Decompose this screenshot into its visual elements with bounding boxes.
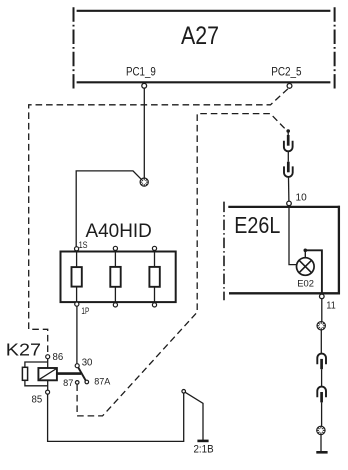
pin 11 circle <box>320 294 325 299</box>
ECU A27 box bottom edge <box>77 81 331 83</box>
svg-text:E02: E02 <box>297 279 314 289</box>
eyelet circle <box>182 390 186 394</box>
connector C3 male pin <box>320 359 323 369</box>
wire C3 to C4 <box>321 369 323 386</box>
ground bar right <box>316 451 327 454</box>
pin 86 circle <box>46 355 50 359</box>
wire splice S1 to A40HID pin 1S <box>76 171 141 247</box>
resistor 3 <box>149 267 159 287</box>
splice S1 <box>140 178 148 186</box>
wire dot to pin 11 <box>306 250 322 292</box>
svg-text:A27: A27 <box>181 22 219 50</box>
ECU A27 box left edge <box>73 7 75 88</box>
wire pin 11 down <box>321 299 323 322</box>
pin circle top resistor 3 <box>152 246 156 250</box>
resistor 3 wire <box>154 251 156 303</box>
svg-text:86: 86 <box>53 352 64 363</box>
wire between connectors C1 C2 <box>287 152 289 162</box>
ballast resistor 1 <box>72 267 82 287</box>
relay parallel resistor <box>22 367 27 380</box>
E26L box left dash-dot edge <box>223 202 225 301</box>
pin PC2_5 <box>287 84 292 89</box>
connector C1 female <box>284 141 293 152</box>
pin 85 circle <box>46 390 50 394</box>
svg-text:30: 30 <box>82 357 93 368</box>
junction dot above lamp <box>304 249 308 253</box>
lamp bulb X <box>299 260 311 272</box>
connector C3 female arch <box>317 354 326 365</box>
pin 30 circle <box>75 364 79 368</box>
pin 87 circle <box>75 381 79 385</box>
connector C4 female arch <box>317 387 326 398</box>
lamp unit E26L box top edge <box>228 206 340 208</box>
relay actuator link <box>57 372 81 375</box>
ECU A27 box right edge <box>334 7 336 88</box>
svg-text:11: 11 <box>326 299 335 311</box>
resistor 2 wire <box>114 251 116 303</box>
connector C1 male pin <box>287 135 290 146</box>
wire dot to connector C1 <box>287 132 289 137</box>
svg-text:87A: 87A <box>94 376 111 387</box>
E26L box right edge <box>338 206 340 295</box>
svg-text:85: 85 <box>32 395 43 406</box>
junction dot harness <box>286 129 290 133</box>
wire pin 10 to lamp <box>289 206 297 265</box>
pin 87A circle <box>85 380 89 384</box>
svg-text:E26L: E26L <box>234 212 280 238</box>
splice S2 <box>317 322 325 330</box>
relay coil diagonal <box>40 369 56 379</box>
pin circle bottom resistor 2 <box>113 303 117 307</box>
pin 10 circle <box>287 201 292 206</box>
svg-text:A40HID: A40HID <box>86 220 152 242</box>
wire eyelet to ground 2:1B <box>185 392 203 440</box>
relay coil branch wire 86 to 85 <box>47 359 49 390</box>
dashed wire PC2_5 to relay pin 86 <box>29 89 288 355</box>
pin circle bottom resistor 3 <box>152 303 156 307</box>
wire 1P to relay pin 30 <box>76 306 78 363</box>
pin 1P circle <box>75 302 79 306</box>
wire S2 to connector C3 <box>320 330 322 354</box>
wire S3 to ground <box>320 435 322 452</box>
ballast resistor 1 wire <box>76 251 78 302</box>
pin 1S circle <box>75 247 79 251</box>
wire to E26L pin 10 <box>288 178 290 202</box>
svg-text:1S: 1S <box>79 240 88 250</box>
wire C4 to splice S3 <box>321 402 323 426</box>
wire 85 to eyelet run <box>48 393 184 441</box>
E26L box bottom edge <box>229 292 340 294</box>
dashed wire relay pin 87 to lamp harness <box>77 114 287 416</box>
svg-text:PC1_9: PC1_9 <box>126 64 156 78</box>
ECU A27 box top edge <box>77 10 331 12</box>
svg-text:PC2_5: PC2_5 <box>271 64 302 78</box>
connector C2 female <box>284 166 293 177</box>
stub dot to lamp <box>304 251 306 257</box>
relay switch blade <box>78 367 86 380</box>
lamp bulb E02 circle <box>297 258 315 276</box>
svg-text:2:1B: 2:1B <box>194 444 214 456</box>
pin PC1_9 <box>142 83 147 88</box>
relay coil box <box>38 368 57 380</box>
module A40HID box <box>61 252 176 303</box>
svg-text:10: 10 <box>296 192 307 204</box>
relay resistor branch loop <box>25 362 48 386</box>
splice S3 <box>317 426 325 434</box>
connector C2 male pin <box>287 162 290 173</box>
wire PC1_9 down to splice <box>143 88 145 178</box>
pin circle top resistor 2 <box>113 246 117 250</box>
ground bar 2:1B <box>197 440 208 443</box>
svg-text:1P: 1P <box>81 306 89 316</box>
svg-text:87: 87 <box>63 378 73 389</box>
resistor 2 <box>110 267 120 287</box>
connector C4 male pin <box>320 392 323 402</box>
svg-text:K27: K27 <box>6 339 41 359</box>
